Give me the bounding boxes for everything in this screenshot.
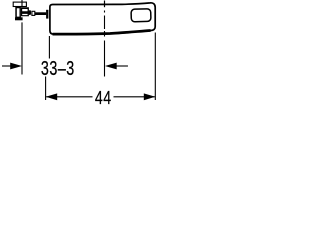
svg-text:33–3: 33–3 bbox=[41, 56, 75, 79]
anchor nub bbox=[29, 10, 31, 15]
inner lid rectangle bbox=[131, 9, 151, 22]
cistern bottom edge (thicker) bbox=[53, 31, 151, 35]
clamp middle tongue bbox=[28, 11, 31, 14]
centerline through plate bbox=[21, 2, 23, 6]
wall anchor: top plate rect bbox=[13, 2, 26, 6]
dim 33-3: right arrow + leader bbox=[105, 63, 117, 70]
extension line: body left edge down bbox=[48, 36, 50, 59]
background bbox=[0, 0, 160, 107]
svg-text:44: 44 bbox=[95, 88, 112, 107]
extension line: 44 left bbox=[45, 77, 47, 101]
rod nut (white square) bbox=[32, 11, 35, 15]
wall anchor: clamp block (outlined jaws) bbox=[21, 7, 29, 16]
wall anchor: stem (outlined, white slot) bbox=[15, 7, 21, 19]
body centerline (dash-dot, x=104.5) bbox=[104, 1, 106, 8]
rod end cap bbox=[46, 10, 48, 19]
cistern body outline bbox=[50, 3, 155, 34]
extension line: body right edge down bbox=[154, 33, 156, 101]
wall anchor centerline (dash-dot, x=22) bbox=[21, 0, 23, 75]
dim 33-3: left leader + arrow bbox=[2, 65, 13, 67]
threaded rod bbox=[35, 12, 46, 15]
dim 44: line + arrows bbox=[46, 96, 92, 98]
wall anchor: foot bbox=[15, 17, 23, 20]
